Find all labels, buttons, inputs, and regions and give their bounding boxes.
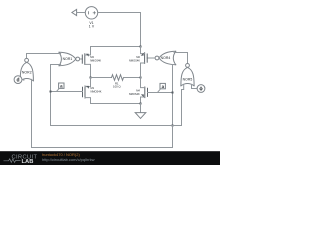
flag b [158, 83, 165, 91]
wire bottom feedback horizontal [51, 125, 182, 127]
transistor M1 (NMOS, middle-left) [83, 78, 91, 104]
junction dot node a [50, 91, 52, 93]
NOR gate NOR1 [59, 52, 80, 65]
input flag circle d [14, 76, 22, 84]
feedback junction dot (4-way) [172, 125, 174, 127]
svg-text:M2: M2 [136, 55, 140, 59]
svg-text:NMOS4K: NMOS4K [129, 59, 140, 63]
svg-text:NOR1: NOR1 [63, 57, 73, 61]
wire NOR4 bottom input down [173, 65, 175, 126]
NOR5 right input lead to flag e [192, 84, 198, 88]
NOR2 input leads [23, 78, 25, 81]
junction dot M1 source / resistor rail [90, 77, 92, 79]
svg-text:NOR5: NOR5 [183, 77, 193, 81]
transistor M2 (NMOS, top-right, mirrored) [141, 47, 153, 78]
svg-text:NOR4: NOR4 [161, 56, 171, 60]
wire node left to M1 drain [91, 46, 141, 48]
NOR gate NOR2 (vertical) [20, 58, 33, 80]
label M2 NMOS4K [129, 55, 141, 63]
node junction dot [140, 46, 142, 48]
NOR gate NOR4 (mirrored, faces left) [155, 51, 176, 64]
svg-text:M4: M4 [136, 88, 140, 92]
wire down right side to node [140, 13, 142, 47]
svg-text:http://circuitlab.com/c/pqlhrk: http://circuitlab.com/c/pqlhrkw [42, 157, 95, 162]
wire NOR1 bottom input down-left [51, 65, 61, 126]
input flag circle e [197, 85, 205, 93]
wire M4 gate to feedback junction [148, 92, 173, 94]
wire V1+ right along top [98, 12, 141, 14]
wire V1- to flag [77, 12, 86, 14]
svg-text:NMOS4K: NMOS4K [129, 92, 140, 96]
wire NOR2 output to NOR1 top input [27, 54, 61, 59]
ground symbol [135, 113, 146, 119]
svg-text:NMOS4K: NMOS4K [90, 59, 101, 63]
wire NOR4 output to M2 gate [153, 57, 155, 59]
label V1 1V [89, 21, 95, 29]
footer text [42, 152, 95, 162]
svg-text:NMOS4K: NMOS4K [91, 90, 102, 94]
svg-text:LAB: LAB [22, 159, 34, 165]
wire gate M1 from node a [51, 91, 83, 93]
label M4 NMOS4K [129, 88, 141, 96]
label R1 100Ω [113, 81, 121, 88]
NOR gate NOR5 (vertical) [181, 64, 194, 86]
footer bar [0, 151, 220, 165]
svg-text:1 V: 1 V [89, 25, 95, 29]
resistor R1 [112, 75, 124, 81]
wire rail to resistor [91, 77, 112, 79]
wire lower loop to NOR2 right input [32, 84, 173, 148]
flag (pennant) on V1 negative terminal [72, 9, 77, 15]
label M3 NMOS4K [90, 55, 101, 62]
transistor M3 (NMOS, top-left) [80, 47, 91, 78]
CircuitLab logo [4, 154, 38, 165]
wire mid rail to ground node [91, 103, 141, 105]
wire ground stem [140, 104, 142, 113]
junction dot on feedback [172, 92, 174, 94]
transistor M4 (NMOS, middle-right, mirrored) [141, 78, 148, 104]
NOR5 left input lead down to feedback [182, 84, 184, 125]
junction dot right rail [140, 77, 142, 79]
wire d to NOR2 left input [22, 79, 24, 81]
voltage source V1 [85, 7, 97, 19]
wire resistor to right rail [124, 77, 141, 79]
junction dot ground node [140, 103, 142, 105]
flag a [57, 83, 64, 91]
wire NOR4 top input to NOR5 output [174, 53, 187, 64]
svg-text:M3: M3 [90, 55, 94, 59]
svg-text:100 Ω: 100 Ω [113, 85, 121, 89]
label M1 NMOS4K [91, 86, 102, 94]
svg-text:M1: M1 [91, 86, 95, 90]
svg-text:d: d [16, 78, 19, 84]
svg-text:NOR2: NOR2 [22, 70, 32, 74]
